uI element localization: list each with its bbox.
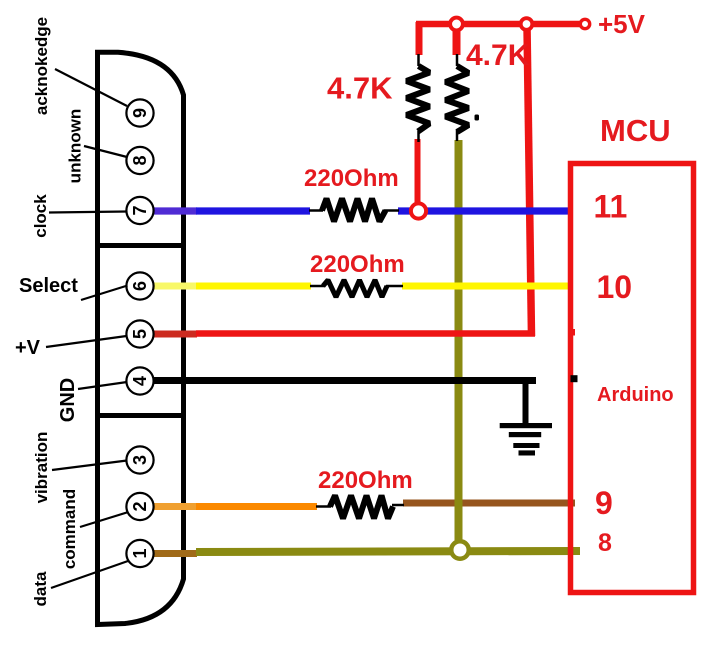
resistor R2 220Ohm lead left	[310, 285, 325, 288]
svg-text:8: 8	[130, 155, 150, 165]
leader line vibration to pin 3	[52, 461, 127, 471]
node: olive junction on data line	[451, 541, 469, 559]
svg-text:7: 7	[130, 205, 150, 215]
resistor R4 4.7K lead top	[417, 54, 420, 66]
svg-text:2: 2	[130, 501, 150, 511]
svg-text:220Ohm: 220Ohm	[310, 251, 405, 278]
resistor R3 220Ohm lead right	[392, 504, 404, 507]
pin 4 circle	[126, 367, 153, 394]
svg-text:4.7K: 4.7K	[466, 39, 530, 72]
pin 8 circle	[126, 147, 153, 174]
wire: blue clock wire pin7 to resistor	[196, 207, 310, 214]
MCU box U1	[571, 164, 694, 593]
svg-text:3: 3	[130, 455, 150, 465]
red tick at MCU +V row	[569, 329, 575, 336]
resistor R5 4.7K vertical zigzag	[446, 66, 469, 132]
wire: black GND wire pin4 horizontal	[151, 377, 536, 384]
wire: gold segment at pin 2	[151, 503, 197, 510]
wire: brown wire resistor to MCU pin 9	[403, 500, 575, 507]
leader line Select to pin 6	[81, 286, 128, 301]
wire: red bend down at left rail end	[416, 22, 423, 55]
svg-text:data: data	[31, 571, 50, 607]
connector divider between pin7 and pin6 sections	[96, 243, 183, 248]
wire: red stub from rail junction to 4.7K R5	[453, 28, 461, 55]
svg-text:MCU: MCU	[600, 113, 671, 148]
pin 7 circle	[126, 197, 153, 224]
svg-text:220Ohm: 220Ohm	[318, 467, 413, 494]
leader line data to pin 1	[51, 561, 128, 588]
wire: olive vertical from 4.7K resistor to data line	[455, 140, 463, 551]
resistor R1 220Ohm lead left	[309, 209, 323, 212]
svg-text:6: 6	[130, 281, 150, 291]
wire: red +V wire pin5 horizontal	[196, 330, 535, 337]
connector J1 body	[98, 52, 184, 624]
resistor R1 220Ohm lead right	[384, 209, 399, 212]
svg-text:Arduino: Arduino	[597, 384, 674, 406]
svg-text:vibration: vibration	[32, 432, 51, 504]
svg-text:+5V: +5V	[598, 9, 646, 39]
connector divider between pin4 and pin3 sections	[96, 413, 183, 418]
resistor R3 220Ohm zigzag on command line	[330, 496, 393, 519]
svg-text:10: 10	[597, 269, 633, 305]
svg-text:5: 5	[130, 329, 150, 339]
svg-text:command: command	[60, 489, 79, 569]
svg-text:1: 1	[130, 548, 150, 558]
wire: red wire from 4.7K R4 bottom to blue node	[415, 139, 421, 204]
wire: +5V rail horizontal	[416, 21, 585, 28]
leader line unknown to pin 8	[84, 146, 127, 157]
svg-text:4: 4	[130, 376, 150, 386]
leader line acknokedge to pin 9	[55, 69, 127, 106]
pin 1 circle	[126, 540, 153, 567]
svg-text:GND: GND	[57, 378, 79, 422]
wire: black stub down to ground	[523, 379, 529, 424]
leader line clock to pin 7	[49, 212, 127, 213]
resistor R4 4.7K lead bottom	[417, 131, 420, 142]
svg-text:11: 11	[594, 189, 628, 225]
black tick at MCU GND row	[571, 375, 578, 382]
resistor R4 4.7K vertical zigzag	[407, 66, 430, 132]
wire: pale yellow segment at pin 6	[151, 283, 197, 290]
resistor R5 4.7K lead bottom	[456, 130, 459, 141]
svg-text:+V: +V	[15, 337, 41, 359]
svg-text:9: 9	[595, 485, 613, 521]
resistor R2 220Ohm lead right	[386, 285, 403, 288]
junction circle on +5V rail above R5	[450, 18, 463, 31]
svg-text:9: 9	[130, 108, 150, 118]
wire: red vertical from +5V rail down	[527, 26, 532, 336]
svg-text:acknokedge: acknokedge	[32, 17, 51, 115]
pin 9 circle	[126, 99, 153, 126]
wire: dark brown segment at pin 1	[151, 550, 197, 557]
resistor R1 220Ohm zigzag on clock line	[322, 199, 386, 222]
pin 3 circle	[126, 446, 153, 473]
leader line +V to pin 5	[46, 336, 127, 347]
wire: orange command wire pin2 to resistor	[196, 503, 317, 510]
pin 5 circle	[126, 320, 153, 347]
resistor R5 4.7K lead top	[456, 54, 459, 66]
resistor R2 220Ohm zigzag on select line	[323, 280, 387, 297]
wire: yellow select wire pin6 to resistor	[196, 283, 311, 290]
leader line command to pin 2	[80, 512, 129, 527]
stray mark near R5 bottom	[475, 115, 480, 121]
resistor R3 220Ohm lead left	[316, 505, 331, 508]
svg-text:unknown: unknown	[66, 109, 85, 184]
wire: dark red segment at pin 5	[151, 331, 197, 338]
svg-text:220Ohm: 220Ohm	[304, 165, 399, 192]
wire: yellow select wire resistor to MCU pin 10	[402, 283, 573, 290]
wire: olive data wire pin1 to MCU pin 8	[196, 551, 580, 552]
ground symbol	[500, 423, 552, 456]
pin 6 circle	[126, 272, 153, 299]
wire: blue clock wire resistor to MCU pin 11	[398, 207, 573, 214]
svg-text:8: 8	[598, 529, 612, 557]
node: red junction on clock line	[411, 203, 426, 218]
leader line GND to pin 4	[78, 382, 127, 389]
wire: purple segment at pin 7	[151, 207, 197, 214]
svg-text:clock: clock	[31, 194, 50, 238]
svg-text:4.7K: 4.7K	[327, 71, 393, 106]
svg-text:Select: Select	[19, 275, 78, 297]
junction circle on +5V rail at red vertical	[521, 18, 533, 30]
pin 2 circle	[126, 493, 153, 520]
+5V terminal circle	[580, 19, 589, 28]
